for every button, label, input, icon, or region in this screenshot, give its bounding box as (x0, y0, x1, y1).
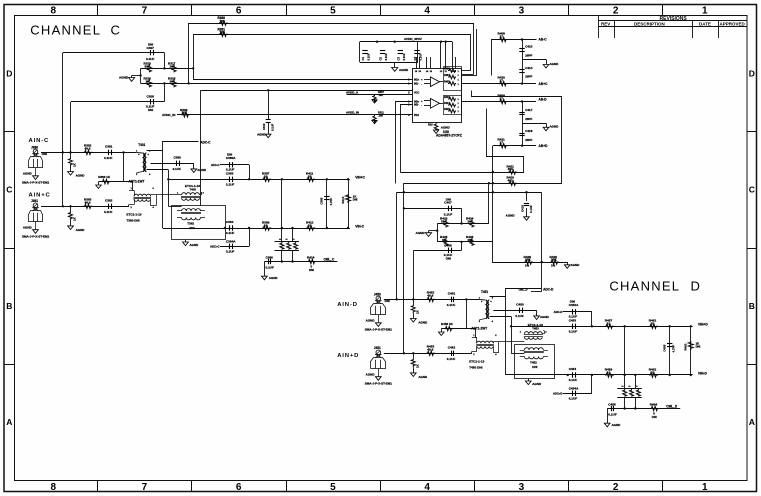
resistor R429 (550, 255, 559, 268)
svg-text:VIN-D: VIN-D (698, 371, 708, 375)
svg-text:27: 27 (500, 96, 504, 100)
svg-text:C2: C2 (379, 57, 383, 61)
junction dots CML row (624, 407, 637, 409)
svg-text:AGND: AGND (612, 423, 622, 427)
channel D input and output section (337, 287, 708, 427)
svg-text:ETC1-1-13: ETC1-1-13 (126, 213, 141, 217)
svg-text:AGND: AGND (416, 231, 426, 235)
resistor R428 (524, 255, 533, 268)
resistor R385 to ground (68, 206, 86, 232)
capacitor C417 (519, 108, 532, 121)
svg-text:C384: C384 (226, 220, 234, 224)
labels ETC1-1-13 T380 (126, 213, 141, 223)
wire stub to U20 right (outer loop) (462, 74, 473, 76)
wire rail upper ladder D (437, 223, 489, 225)
capacitor C402 (379, 51, 389, 61)
svg-text:DNI: DNI (189, 226, 194, 230)
svg-text:C381: C381 (105, 145, 113, 149)
ground T1 center tap (191, 163, 207, 172)
ground CML row (564, 263, 580, 268)
wires cap bank to U20 top pins (441, 42, 453, 69)
wire stub feedback A (462, 29, 477, 76)
svg-text:0.1UF: 0.1UF (226, 168, 235, 172)
wire stub to T382 (511, 353, 524, 355)
connector J451 (SMA) (365, 346, 393, 385)
wire triple-R rails (617, 389, 642, 398)
resistor R425 (440, 235, 448, 246)
wire ADT top-left to R456 (476, 337, 477, 339)
resistor R466 (629, 385, 634, 396)
svg-text:T403: T403 (189, 187, 196, 191)
svg-text:10K: 10K (379, 94, 384, 97)
svg-text:C308: C308 (147, 94, 155, 98)
resistor R380 (218, 16, 229, 25)
svg-text:AGND: AGND (550, 62, 560, 66)
svg-text:0.1UF: 0.1UF (608, 413, 617, 417)
svg-text:T450 DNI: T450 DNI (469, 366, 482, 370)
svg-text:AIN-C: AIN-C (29, 138, 50, 144)
junction dots ladder (139, 67, 194, 84)
wire loop inner (R381 net) (194, 35, 471, 80)
transformer T402 (ADT1-1WT) (129, 179, 182, 209)
resistor R465 (622, 385, 627, 396)
svg-text:ADA4857-2YCPZ: ADA4857-2YCPZ (436, 134, 462, 138)
svg-text:0.1UF: 0.1UF (384, 53, 388, 61)
svg-text:AGND: AGND (23, 226, 33, 230)
wire R420 row (404, 91, 562, 184)
capacitor C384A DNI branch (210, 228, 249, 254)
junction dot AVDD bypass (267, 89, 269, 91)
svg-text:A: A (6, 417, 12, 427)
svg-text:2: 2 (613, 6, 619, 17)
svg-text:10K: 10K (182, 111, 188, 115)
svg-text:DNI: DNI (446, 256, 451, 260)
svg-text:4.7PF: 4.7PF (672, 345, 676, 353)
svg-text:C: C (6, 185, 12, 195)
wire CML output row (607, 408, 680, 410)
svg-text:0.1UF: 0.1UF (402, 53, 406, 61)
resistor R464 (650, 403, 659, 419)
resistor R389 (262, 220, 271, 230)
wire branch down to ADT (475, 329, 477, 338)
wire T1 bottom lead (147, 169, 169, 171)
svg-text:C454A: C454A (569, 386, 579, 390)
capacitor C385 between W1 W2 (320, 179, 333, 228)
wire stub to T382 (168, 206, 181, 208)
svg-text:AGND: AGND (189, 243, 199, 247)
svg-text:0.1UF: 0.1UF (515, 314, 524, 318)
svg-text:C455: C455 (662, 344, 666, 351)
svg-text:0.1UF: 0.1UF (569, 329, 578, 333)
capacitor C452A DNI branch (554, 299, 592, 326)
resistor R318 (168, 76, 176, 87)
svg-text:27: 27 (500, 34, 504, 38)
svg-text:CHANNEL: CHANNEL (609, 278, 680, 293)
svg-text:8: 8 (51, 482, 57, 493)
capacitor C453 inline (569, 318, 578, 333)
svg-text:AIN-D: AIN-D (337, 302, 358, 308)
svg-text:AGND: AGND (550, 125, 560, 129)
svg-text:AVDD_3P3V: AVDD_3P3V (404, 37, 423, 41)
wire W1 (upper output) (168, 179, 350, 181)
wire row2 up to ADT lower pin (128, 205, 130, 207)
svg-text:C450: C450 (516, 303, 524, 307)
svg-text:SMA-J-P-X-ST-EM1: SMA-J-P-X-ST-EM1 (365, 328, 393, 332)
ground box (525, 379, 541, 386)
wire op-amp B out upper (AB-D) (462, 101, 536, 103)
svg-text:IN1-: IN1- (414, 83, 419, 86)
resistor R387 (262, 172, 271, 182)
net AVDD_A wire to U20 pin (346, 91, 413, 95)
junction dots W1 (167, 178, 349, 180)
resistor R381 (218, 27, 229, 36)
svg-text:5: 5 (330, 482, 336, 493)
capacitor C413 (519, 45, 532, 58)
svg-text:0.1UF: 0.1UF (529, 205, 533, 213)
capacitor C380 center tap (151, 156, 194, 171)
wire row2 up to ADT lower pin (471, 352, 473, 354)
svg-text:VIN+D: VIN+D (698, 323, 708, 327)
ground ladder D AGND (416, 231, 438, 237)
wire T1 right vertical down (162, 150, 164, 228)
svg-text:C3: C3 (396, 57, 400, 61)
resistor R417 (293, 238, 298, 249)
wire ADT top-left to R386 (133, 190, 134, 192)
resistor R452 (426, 291, 435, 302)
svg-text:20: 20 (651, 322, 655, 326)
resistor R384 to ground (68, 152, 86, 177)
svg-text:DNI: DNI (148, 108, 153, 112)
net label AVDD_IN wire to U20 lower pin (162, 113, 413, 117)
svg-text:0.1UF: 0.1UF (444, 212, 453, 216)
resistor R453 (426, 345, 435, 356)
op-amp B input stubs (421, 99, 430, 107)
svg-text:APPROVED: APPROVED (720, 22, 746, 27)
labels ETC1-1-13 T450 (469, 360, 484, 370)
svg-text:AGND: AGND (540, 315, 550, 319)
junction dots CML row (281, 260, 294, 262)
wire feedback loop B inner (401, 105, 413, 173)
ground cap chain B (522, 123, 559, 131)
svg-text:DATE: DATE (699, 22, 711, 27)
junction dots row 2 (403, 352, 415, 354)
wire branch down to ADT (132, 182, 134, 191)
svg-text:7: 7 (142, 6, 148, 17)
svg-text:C385: C385 (320, 197, 324, 204)
svg-text:7: 7 (142, 482, 148, 493)
svg-text:CML_C: CML_C (324, 257, 336, 261)
capacitor C407 (404, 197, 462, 216)
svg-text:R414: R414 (444, 102, 450, 105)
capacitor C454A DNI branch (553, 375, 592, 401)
junction dots row 1 (396, 298, 468, 300)
net AVDD wire to U20 pin (200, 90, 412, 92)
wire input row 2 (41, 206, 129, 208)
resistor R415 (279, 238, 284, 249)
wire feedback loop B outer (396, 102, 413, 184)
svg-text:6: 6 (236, 482, 242, 493)
capacitor C455 between W1 W2 (662, 326, 675, 375)
svg-text:D: D (749, 69, 755, 79)
wire input row 2 (384, 353, 472, 355)
junction dots R420 row (488, 182, 494, 184)
svg-text:VIN-C: VIN-C (355, 224, 365, 228)
U20 right pin numbers (458, 71, 460, 113)
svg-text:ADC+D: ADC+D (553, 392, 562, 396)
svg-text:49.9: 49.9 (427, 294, 433, 298)
stub pins U20 top (417, 57, 456, 69)
zone letters right (749, 69, 755, 428)
svg-text:ADT1-1WT: ADT1-1WT (471, 326, 487, 330)
svg-text:C451: C451 (448, 292, 456, 296)
svg-text:10: 10 (264, 223, 268, 227)
svg-text:AGND: AGND (366, 319, 376, 323)
connector J380 (SMA) (22, 145, 50, 184)
resistor R414 (307, 256, 316, 272)
svg-text:2: 2 (613, 482, 619, 493)
svg-text:3: 3 (519, 6, 525, 17)
svg-text:A: A (749, 417, 755, 427)
wire vertical AVDD to box (200, 90, 202, 205)
svg-text:T451: T451 (481, 290, 488, 294)
op-amp A input stubs (421, 78, 430, 86)
U20 left pin names (408, 79, 420, 117)
svg-text:REV: REV (601, 22, 610, 27)
resistor R423 (440, 216, 448, 227)
svg-text:20: 20 (651, 370, 655, 374)
svg-text:0.1UF: 0.1UF (569, 378, 578, 382)
svg-text:ADC-D: ADC-D (554, 310, 563, 314)
svg-text:AGND: AGND (119, 76, 129, 80)
svg-text:SMA-J-P-X-ST-EM1: SMA-J-P-X-ST-EM1 (22, 181, 50, 185)
svg-text:49.9: 49.9 (427, 348, 433, 352)
capacitor C403 (396, 51, 406, 61)
wire C307 to rail (164, 53, 166, 69)
capacitor C415 with ground (506, 192, 533, 220)
transformer box T452 (515, 345, 555, 379)
wire T1 bottom lead (490, 316, 512, 318)
wire C308 to rail (164, 83, 166, 101)
resistor R463 between W1 W2 (684, 326, 701, 375)
svg-text:AGND: AGND (506, 214, 516, 218)
svg-text:IN2-: IN2- (414, 104, 419, 107)
svg-text:10: 10 (264, 175, 268, 179)
svg-text:10K: 10K (525, 258, 531, 262)
svg-text:DNI: DNI (309, 268, 314, 272)
svg-text:26PF: 26PF (525, 117, 532, 121)
svg-text:AGND: AGND (366, 373, 376, 377)
ground T1 center tap (534, 310, 550, 319)
resistor R411 (306, 172, 315, 182)
wire op-amp A out lower (AB+C) (462, 83, 536, 85)
resistor R426 (466, 235, 474, 246)
svg-text:C: C (749, 185, 755, 195)
svg-text:C453: C453 (569, 318, 577, 322)
svg-text:C414: C414 (525, 66, 533, 70)
svg-text:AIN+C: AIN+C (29, 192, 51, 198)
svg-text:10: 10 (607, 370, 611, 374)
svg-text:C382: C382 (105, 199, 113, 203)
wire vertical to lower transformer (168, 170, 170, 206)
svg-text:51.0: 51.0 (441, 219, 447, 223)
wire triple-R rails (275, 242, 300, 251)
svg-text:DNI: DNI (532, 365, 537, 369)
svg-text:0.1UF: 0.1UF (266, 266, 275, 270)
svg-text:AVDD_IN: AVDD_IN (162, 113, 176, 117)
svg-text:0.1UF: 0.1UF (447, 357, 456, 361)
junction dots ladder D (436, 222, 463, 243)
resistor R421 (507, 164, 517, 174)
wires W1 W2 down to cluster (625, 326, 636, 388)
svg-text:200: 200 (170, 79, 175, 83)
svg-text:C454: C454 (569, 367, 577, 371)
svg-text:R415: R415 (444, 108, 450, 111)
U20 reference label (436, 130, 462, 138)
svg-text:27: 27 (500, 79, 504, 83)
resistor R309 (180, 108, 189, 117)
feedback network box A (444, 67, 462, 91)
svg-text:26PF: 26PF (525, 75, 532, 79)
svg-text:J451: J451 (374, 346, 381, 350)
capacitor C456 with ground (604, 403, 621, 428)
junction dots W2 (224, 227, 349, 229)
wire vertical C408 to AIN-D (413, 250, 415, 299)
svg-text:AGND: AGND (76, 174, 86, 178)
resistor R413 between W1 W2 (341, 179, 358, 228)
svg-text:R404: R404 (444, 74, 450, 77)
svg-text:AGND: AGND (418, 375, 428, 379)
svg-text:0.1UF: 0.1UF (367, 53, 371, 61)
svg-text:-: - (421, 82, 422, 86)
svg-text:C408: C408 (444, 243, 452, 247)
capacitor C310 with ground (257, 90, 275, 137)
ground ladder AGND (119, 76, 141, 82)
svg-text:ADC-D: ADC-D (543, 287, 554, 291)
svg-text:T382: T382 (187, 222, 194, 226)
resistor R408 (498, 32, 508, 42)
svg-text:C417: C417 (525, 108, 533, 112)
capacitor C454 inline (569, 367, 578, 382)
capacitor C418 (519, 129, 532, 142)
svg-text:C456: C456 (608, 403, 616, 407)
resistor R420 (507, 176, 517, 186)
wire branch to xfmr bias (466, 299, 468, 328)
wire W1 (upper output) (511, 326, 693, 328)
capacitor C451 (447, 292, 456, 307)
wire rail lower to U20 pin (141, 83, 413, 85)
svg-text:AGND: AGND (571, 263, 581, 267)
svg-text:AB-C: AB-C (539, 38, 548, 42)
zone numbers bottom (51, 482, 709, 493)
svg-text:C413: C413 (525, 45, 533, 49)
transformer T451 (479, 290, 494, 323)
wire lower routing row (397, 192, 542, 194)
resistor R382 (84, 144, 93, 155)
wire loop outer (R380 net) (189, 24, 474, 84)
wire CML row (493, 242, 568, 265)
wire vertical to lower transformer (511, 317, 513, 353)
svg-text:C383: C383 (226, 171, 234, 175)
svg-text:AB+D: AB+D (539, 144, 549, 148)
svg-text:R463: R463 (684, 343, 688, 350)
svg-text:R464: R464 (650, 403, 658, 407)
svg-text:27: 27 (500, 141, 504, 145)
resistor R311 with ground (372, 111, 384, 123)
svg-text:B: B (749, 301, 755, 311)
resistor R456 to ground (439, 322, 476, 336)
U20 bottom pin resistor to ground (428, 122, 450, 133)
transformer T453 (ETC1-1-13) (520, 323, 548, 339)
svg-text:C310: C310 (262, 123, 266, 130)
svg-text:0.1UF: 0.1UF (569, 397, 578, 401)
resistor R386 to ground (96, 175, 133, 189)
junction dots W1 (510, 325, 692, 327)
svg-text:ETC1-1-13: ETC1-1-13 (469, 360, 484, 364)
wire T1 secondary top route (147, 142, 199, 151)
svg-text:8: 8 (51, 6, 57, 17)
wires W1 W2 down to cluster (282, 179, 293, 241)
zone letters left (6, 69, 12, 428)
U20 top pin numbers (415, 70, 457, 73)
svg-text:0.1UF: 0.1UF (104, 210, 113, 214)
capacitor C383 inline (226, 171, 235, 186)
svg-text:0.1UF: 0.1UF (173, 167, 182, 171)
svg-text:0.1UF: 0.1UF (569, 315, 578, 319)
junction dots lower row (492, 191, 528, 193)
svg-text:R413: R413 (341, 196, 345, 203)
junction dots B out (521, 100, 523, 147)
cap bank rails (360, 42, 453, 63)
svg-text:T401: T401 (138, 143, 145, 147)
transformer T403 (ETC1-1-13) (177, 184, 205, 200)
junction dots D input verticals (403, 191, 405, 210)
wire stub to U20 right (inner loop) (462, 70, 471, 72)
title CHANNEL D (609, 278, 699, 293)
wire vertical R420 net down (488, 183, 490, 223)
zone numbers top (51, 6, 709, 17)
svg-text:T380 DNI: T380 DNI (126, 219, 139, 223)
svg-text:D: D (691, 278, 700, 293)
svg-text:20: 20 (308, 223, 312, 227)
resistor R315 (144, 61, 152, 72)
svg-text:SMA-J-P-X-ST-EM1: SMA-J-P-X-ST-EM1 (365, 382, 393, 386)
op-amp A output wire (440, 81, 444, 83)
svg-text:C307: C307 (147, 46, 155, 50)
feedback network box B (444, 96, 462, 115)
svg-text:AB+C: AB+C (539, 82, 549, 86)
wire W2 (lower output) (506, 374, 693, 376)
svg-text:J381: J381 (31, 199, 38, 203)
svg-text:AGND: AGND (532, 382, 542, 386)
wire vertical R421 net down (492, 146, 494, 242)
svg-text:AGND: AGND (418, 321, 428, 325)
svg-text:100: 100 (220, 19, 225, 23)
connector J450 (SMA) (365, 292, 393, 331)
wire CML_D vertical with label (519, 192, 542, 291)
capacitor C450 center tap (493, 303, 536, 318)
wire CML output row (264, 261, 337, 263)
wire cap chain A vertical (522, 40, 524, 84)
capacitor C404 (413, 51, 423, 61)
junction dot CML row (541, 261, 543, 263)
junction dots A out (521, 38, 523, 85)
capacitor C381 (104, 145, 113, 160)
resistor R455 to ground (410, 353, 428, 379)
svg-text:ADT1-1WT: ADT1-1WT (129, 179, 145, 183)
capacitor C386 with ground (262, 256, 279, 281)
svg-text:DNI: DNI (652, 415, 657, 419)
wire T1 secondary top route (490, 289, 542, 297)
